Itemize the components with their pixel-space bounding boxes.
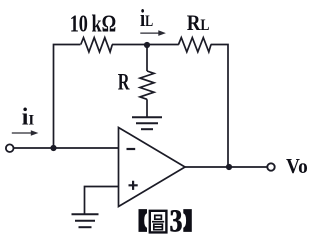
current arrow iL: [140, 30, 166, 36]
resistor R1 10kOhm (feedback, top): [81, 38, 113, 52]
node: output junction: [226, 164, 232, 170]
svg-text:10 kΩ: 10 kΩ: [70, 11, 117, 38]
wire: top-right corner down to output node: [211, 45, 228, 168]
caption left bracket: [139, 209, 148, 232]
ground (non-inverting input): [72, 214, 99, 227]
wire: R bottom lead to ground: [146, 99, 148, 116]
svg-text:iL: iL: [140, 6, 153, 32]
ground (below resistor R): [132, 117, 162, 129]
caption: character tu (figure): [150, 211, 167, 233]
svg-text:iI: iI: [22, 105, 35, 131]
output terminal Vo: [267, 163, 274, 170]
current arrow iI: [12, 130, 39, 136]
svg-text:RL: RL: [187, 11, 210, 35]
resistor R (vertical): [140, 71, 154, 99]
wire: between 10k resistor and RL: [112, 44, 179, 46]
wire: non-inverting input to ground: [85, 187, 119, 214]
wire: left vertical + top wire segment to 10k resistor: [54, 45, 81, 149]
svg-text:R: R: [118, 69, 130, 94]
wire: input line from terminal to op-amp inverting input: [13, 147, 118, 149]
svg-text:Vo: Vo: [286, 154, 308, 178]
svg-text:3: 3: [170, 204, 183, 240]
wire: op-amp output to terminal: [185, 166, 267, 168]
op-amp U1: [119, 128, 186, 207]
wire: R branch vertical from top wire: [146, 45, 148, 71]
node: top junction at R branch: [144, 42, 150, 48]
caption right bracket: [183, 209, 192, 232]
resistor RL (top right): [179, 38, 212, 52]
input terminal: [6, 144, 14, 152]
node: input junction: [50, 145, 56, 151]
